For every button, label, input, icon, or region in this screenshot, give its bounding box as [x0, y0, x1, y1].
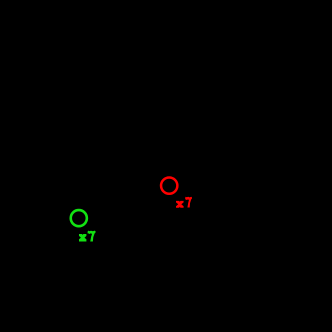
- label x7 (red, subscript of O2): [176, 197, 192, 208]
- label x7 (green, subscript of O1): [79, 231, 96, 242]
- atom O2 (red oxygen circle): [161, 177, 177, 193]
- atom O1 (green oxygen circle): [71, 210, 87, 226]
